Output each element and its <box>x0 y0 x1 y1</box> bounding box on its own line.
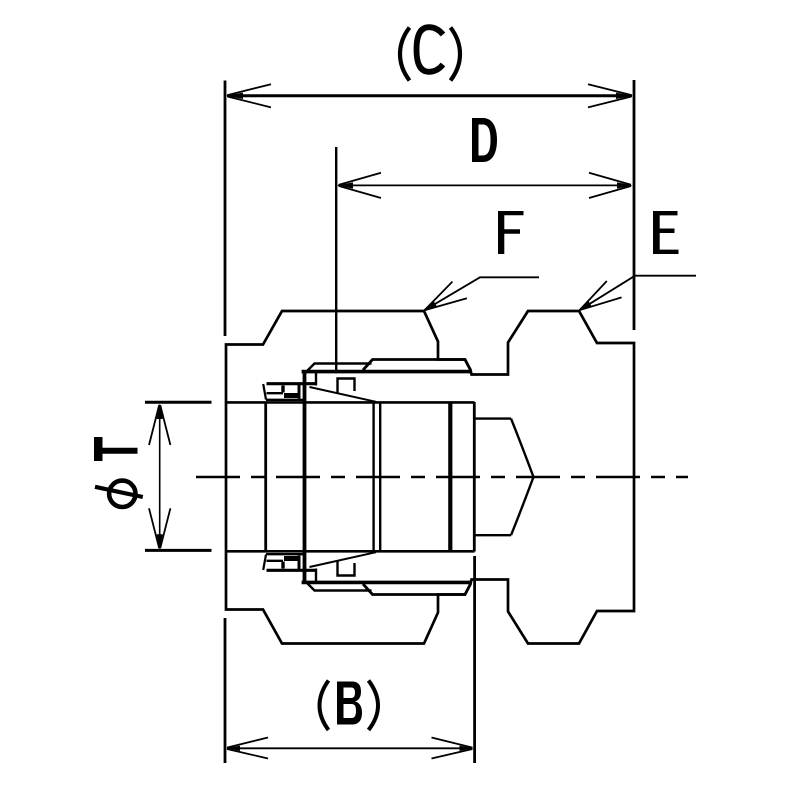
body outline <box>226 311 634 644</box>
ferrule nose right wall <box>281 386 284 393</box>
label F <box>498 211 524 254</box>
inner vertical A <box>372 402 374 551</box>
label E <box>653 211 679 254</box>
label (C) right paren <box>451 28 461 81</box>
ferrule front chamfer <box>263 384 266 400</box>
dim T top arrow <box>149 404 170 446</box>
dim B left extension line <box>224 618 227 763</box>
dim C left extension line <box>224 81 227 337</box>
thread detail lower strip (mirror) <box>263 552 470 594</box>
dim B line <box>227 747 473 749</box>
front ferrule bottom thick <box>284 393 301 398</box>
label D <box>472 118 497 162</box>
counterbore top <box>475 417 512 419</box>
front ferrule right wall <box>298 384 301 399</box>
thread lead line <box>308 364 372 371</box>
label (B) right paren <box>369 681 379 731</box>
dim T top extension line <box>145 401 212 404</box>
bore bottom line <box>226 550 475 553</box>
label (B) left paren <box>320 681 329 731</box>
drill cone <box>511 419 534 536</box>
dim C right extension line <box>633 80 636 330</box>
ferrule back face vertical <box>303 372 307 582</box>
dim C right arrow <box>588 84 633 107</box>
nut cone diagonal <box>310 387 377 402</box>
dim C left arrow <box>226 84 271 107</box>
dim B right extension line <box>473 556 476 763</box>
thread crest trapezoid <box>363 360 471 371</box>
dim D left arrow <box>337 173 381 198</box>
dim B left arrow <box>227 738 269 759</box>
thread detail upper strip <box>263 360 470 402</box>
leader E <box>580 276 697 311</box>
counterbore bottom <box>475 534 512 536</box>
label (B) letter B <box>337 682 362 725</box>
back ferrule box <box>338 379 355 395</box>
cap end face <box>473 402 476 552</box>
label (C) left paren <box>400 28 410 81</box>
dim T bottom arrow <box>149 508 170 550</box>
tube end face <box>264 404 267 551</box>
inner vertical C thick <box>448 402 452 551</box>
dim T line <box>159 405 161 548</box>
centerline <box>196 476 688 478</box>
ferrule nose bottom <box>267 392 284 394</box>
leader F <box>425 277 540 310</box>
ferrule under line <box>266 399 304 401</box>
label phi rotated <box>109 481 135 507</box>
dim T bottom extension line <box>145 549 212 552</box>
label T rotated <box>94 437 138 461</box>
ferrule flange top line <box>267 382 317 385</box>
label (C) letter C <box>417 27 444 72</box>
bore top line <box>226 401 475 404</box>
thread root line <box>302 370 471 374</box>
dim B right arrow <box>432 738 474 759</box>
dim D left extension line <box>335 147 337 373</box>
dim D right arrow <box>589 173 633 198</box>
inner vertical B <box>379 402 381 551</box>
dim D line <box>338 184 631 186</box>
nut slot right wall <box>315 372 317 386</box>
dim C line <box>227 94 632 97</box>
